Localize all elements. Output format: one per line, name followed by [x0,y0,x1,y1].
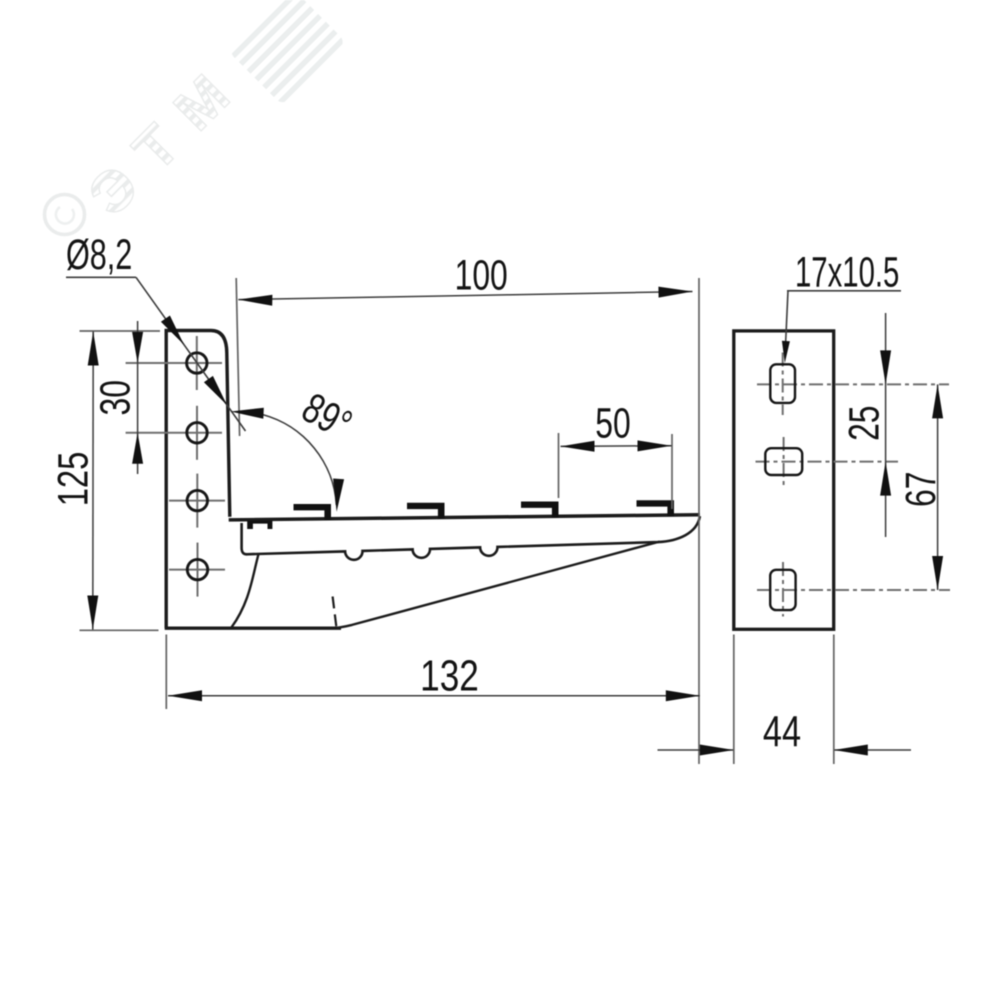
svg-text:132: 132 [420,652,479,701]
gusset bend dashed line [333,597,337,629]
hole 4 (d8.2) [187,559,207,579]
svg-text:50: 50 [595,399,630,447]
bracket bottom edge [165,627,341,630]
svg-text:Ø8,2: Ø8,2 [66,230,132,278]
dim 132 [168,695,700,697]
shelf bottom profile with weld bumps and rounded nose [246,516,700,560]
slot 3 (17x10.5) [770,570,795,610]
dim 100 [238,292,692,300]
dim 44 [658,749,734,751]
extension line 50 left [558,433,560,498]
extension line right (shelf tip) [698,278,700,764]
slot 1 centerlines [757,383,949,385]
left retaining clip on shelf [247,521,272,529]
hole 3 centerlines [169,500,225,502]
watermark ETM logo [45,0,347,247]
svg-text:25: 25 [840,405,888,440]
svg-text:44: 44 [763,707,801,756]
hole 2 centerlines [126,432,222,434]
angle dim 89deg [263,415,337,505]
slot 2 centerlines [756,461,899,463]
hole 3 (d8.2) [187,490,207,510]
extension line top of plate [80,330,161,332]
gusset front curved edge [232,554,259,627]
shelf hook 5 [637,500,675,516]
slot 3 centerlines [757,589,950,591]
extension lines 44 [733,635,735,765]
extension line 50 right [671,434,673,509]
shelf hook 4 [521,502,559,518]
hole 1 centerlines [126,362,222,364]
shelf hook 3 [407,503,445,519]
shelf hook 2 [294,504,332,520]
svg-text:125: 125 [50,452,97,507]
shelf front lip under plate [242,523,247,554]
dim 50 [561,445,672,448]
bracket side view: vertical plate outline [166,331,230,629]
extension line 132 left [165,635,167,710]
mounting plate front view [734,331,834,629]
extension line bottom left [80,629,159,631]
svg-text:100: 100 [455,251,508,299]
hole 2 (d8.2) [187,423,207,443]
dim 125 [92,332,94,630]
dim 67 [937,384,939,590]
shelf top line [229,515,700,520]
extension line 100 left (slanted face plane) [236,278,239,436]
gusset hypotenuse [331,542,660,629]
hole 4 centerlines [169,569,225,571]
slot 1 (17x10.5) [770,364,795,403]
svg-text:17x10.5: 17x10.5 [795,248,899,296]
svg-text:30: 30 [91,380,139,415]
slot 2 (17x10.5 horizontal) [765,448,802,475]
dim 30 [137,321,139,474]
hole 1 (d8.2) [187,353,207,373]
dim 25 [885,313,887,537]
svg-text:67: 67 [897,472,945,507]
